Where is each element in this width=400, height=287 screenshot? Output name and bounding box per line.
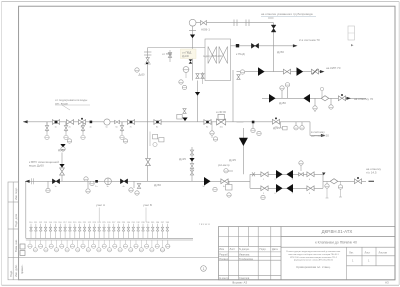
svg-text:6н: 6н (223, 186, 225, 188)
svg-text:от ПВД: от ПВД (162, 52, 172, 56)
svg-text:Криворожская эл. станц.: Криворожская эл. станц. (296, 265, 330, 269)
svg-text:Дата: Дата (272, 247, 278, 251)
svg-text:от ПВД: от ПВД (182, 51, 191, 55)
svg-text:5в: 5в (106, 127, 108, 129)
svg-text:Иванова: Иванова (239, 253, 250, 257)
svg-text:7 8 9 10 11: 7 8 9 10 11 (199, 224, 211, 226)
svg-text:узел А: узел А (96, 203, 105, 207)
svg-text:5н: 5н (203, 186, 205, 188)
svg-text:2-я система 70: 2-я система 70 (299, 38, 320, 42)
svg-text:Реконструкция водоподготовител: Реконструкция водоподготовительной устан… (286, 250, 341, 253)
svg-text:на отметке указанного трубопро: на отметке указанного трубопровода (261, 12, 313, 16)
svg-text:Н.контр.: Н.контр. (219, 276, 229, 280)
svg-text:2н: 2н (95, 186, 97, 188)
svg-text:на отметку 70: на отметку 70 (354, 97, 373, 101)
svg-text:Инв. подл.: Инв. подл. (14, 187, 18, 200)
svg-text:Ду25: Ду25 (179, 157, 186, 161)
svg-text:эл.ФУ-80: эл.ФУ-80 (216, 111, 227, 114)
svg-text:Лист: Лист (365, 251, 371, 255)
svg-text:Взам. инв.: Взам. инв. (14, 239, 18, 252)
svg-text:Лит.: Лит. (349, 251, 354, 255)
svg-text:8в: 8в (156, 127, 158, 129)
svg-text:узел Б: узел Б (143, 203, 152, 207)
svg-text:1: 1 (203, 267, 205, 271)
svg-text:Ду80: Ду80 (279, 101, 286, 105)
svg-text:Ду80: Ду80 (58, 148, 65, 152)
svg-text:Лист: Лист (230, 247, 236, 251)
svg-text:функциональная схема АТХ.00-24: функциональная схема АТХ.00-240.00 (294, 259, 334, 262)
svg-text:Изм: Изм (219, 247, 224, 251)
svg-text:4н: 4н (123, 186, 125, 188)
svg-text:подогр. ПСВ-200: подогр. ПСВ-200 (203, 55, 222, 58)
svg-text:Ду100: Ду100 (182, 55, 190, 58)
svg-text:Соколов: Соколов (239, 276, 250, 280)
svg-text:Ду50: Ду50 (154, 183, 161, 187)
svg-text:Подп.: Подп. (9, 270, 13, 277)
svg-text:ДКР.ВН.01-АТХ: ДКР.ВН.01-АТХ (322, 229, 353, 234)
svg-text:Ду25: Ду25 (229, 158, 236, 162)
svg-text:Ду50: Ду50 (277, 50, 284, 54)
svg-text:4в: 4в (90, 127, 92, 129)
svg-text:воды Ду50: воды Ду50 (29, 163, 44, 167)
svg-text:Провер.: Провер. (219, 257, 229, 261)
svg-text:к ПНД: к ПНД (236, 52, 245, 56)
svg-text:ХПК-100 схема автоматизации кл: ХПК-100 схема автоматизации клапанов ПУ-… (290, 257, 338, 259)
svg-text:1в: 1в (55, 127, 57, 129)
svg-text:N докум.: N докум. (239, 247, 250, 251)
svg-text:сет. воды: сет. воды (55, 101, 68, 105)
svg-text:т/о 14,5: т/о 14,5 (366, 171, 377, 175)
svg-text:к Клапанам до ПБ№№ 40: к Клапанам до ПБ№№ 40 (315, 241, 357, 245)
svg-text:примеч.: примеч. (21, 264, 24, 274)
svg-text:на КИП 70: на КИП 70 (326, 66, 341, 70)
svg-text:Разраб.: Разраб. (219, 253, 229, 257)
svg-text:Листов: Листов (379, 251, 388, 255)
svg-text:А3: А3 (385, 281, 389, 285)
svg-text:Формат А3: Формат А3 (232, 281, 247, 285)
svg-text:дренажей 20: дренажей 20 (311, 134, 329, 138)
svg-text:АОВ-1: АОВ-1 (201, 28, 210, 32)
svg-text:Трофимова: Трофимова (239, 257, 253, 261)
svg-text:10в: 10в (220, 127, 223, 129)
svg-text:3в: 3в (81, 127, 83, 129)
svg-text:1н: 1н (55, 186, 57, 188)
svg-text:3н: 3н (107, 186, 109, 188)
svg-text:Ду50: Ду50 (139, 73, 146, 77)
svg-text:Подп. дата: Подп. дата (14, 213, 18, 227)
svg-text:11в: 11в (275, 127, 278, 129)
svg-text:2в: 2в (69, 127, 71, 129)
svg-text:очистки воды и отборов насосов: очистки воды и отборов насосов станции П… (288, 254, 339, 256)
svg-text:Инв. дубл.: Инв. дубл. (14, 264, 18, 277)
svg-text:рН-метр: рН-метр (218, 163, 230, 167)
svg-text:6в: 6в (116, 127, 118, 129)
svg-text:Подп.: Подп. (260, 247, 267, 251)
svg-text:9в: 9в (206, 127, 208, 129)
svg-text:7в: 7в (130, 127, 132, 129)
